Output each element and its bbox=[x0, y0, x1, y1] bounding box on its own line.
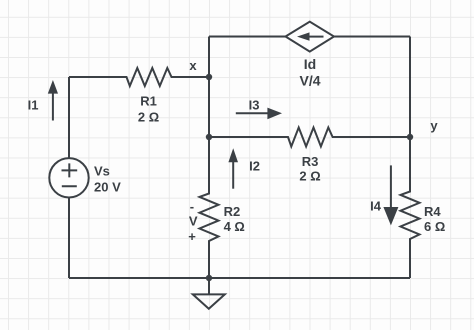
svg-text:y: y bbox=[430, 118, 438, 133]
svg-text:I1: I1 bbox=[28, 98, 39, 113]
svg-text:2 Ω: 2 Ω bbox=[138, 109, 159, 124]
svg-text:R3: R3 bbox=[302, 154, 319, 169]
svg-text:I2: I2 bbox=[249, 159, 260, 174]
svg-text:R4: R4 bbox=[424, 204, 441, 219]
svg-text:Vs: Vs bbox=[94, 164, 110, 179]
svg-text:V: V bbox=[189, 213, 198, 228]
svg-text:R1: R1 bbox=[140, 93, 157, 108]
svg-text:R2: R2 bbox=[224, 204, 241, 219]
svg-text:+: + bbox=[188, 229, 196, 244]
svg-text:2 Ω: 2 Ω bbox=[299, 169, 320, 184]
svg-text:4 Ω: 4 Ω bbox=[224, 219, 245, 234]
svg-text:6 Ω: 6 Ω bbox=[424, 219, 445, 234]
svg-text:Id: Id bbox=[304, 56, 316, 72]
svg-text:20 V: 20 V bbox=[94, 179, 121, 194]
svg-text:I4: I4 bbox=[370, 199, 382, 214]
svg-text:-: - bbox=[190, 199, 194, 214]
svg-text:V/4: V/4 bbox=[299, 73, 320, 89]
svg-text:x: x bbox=[189, 58, 197, 73]
svg-text:I3: I3 bbox=[249, 97, 260, 112]
